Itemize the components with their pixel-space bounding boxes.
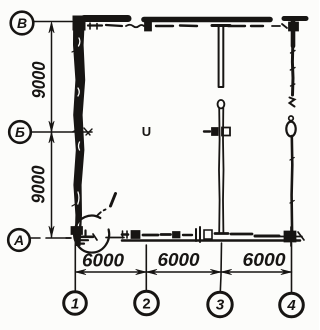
top wall: gap squiggle <box>126 25 144 28</box>
svg-text:3: 3 <box>216 297 225 314</box>
detail mark numeral 1 <box>111 194 116 207</box>
top-right corner blob <box>289 22 299 31</box>
axis 3 stub round top <box>218 100 225 108</box>
top-right corner bar <box>284 16 306 21</box>
axis line A through detail circle to wall <box>106 237 124 239</box>
svg-text:2: 2 <box>142 296 150 313</box>
extension line axis 2 <box>145 245 147 291</box>
axis 4 squiggle break <box>290 98 295 107</box>
axis 4 oval symbol at level Б <box>286 116 295 136</box>
axis bubble 4 <box>280 293 304 317</box>
axis 3 partition upper segment (double line) <box>219 25 224 87</box>
bottom wall: continuous bottom line <box>122 239 300 242</box>
top wall: dash+tick right of bar <box>272 24 287 28</box>
top wall: left panel underside dashes <box>88 25 122 26</box>
detail leader dashes <box>97 210 106 217</box>
axis 4 right wall lower line <box>290 136 293 233</box>
dim arrow bottom (down) <box>49 226 54 237</box>
bottom dim arrows <box>75 269 86 274</box>
column symbol on axis 3 at level Б <box>204 128 230 136</box>
extension line axis 4 <box>291 243 293 293</box>
bottom wall: panel marks row <box>122 227 279 242</box>
left wall (axis 1) hatched band <box>72 16 85 246</box>
axis bubble 1 <box>64 292 87 315</box>
bottom wall: corner cross ticks <box>66 237 71 239</box>
axis bubble 3 <box>208 292 232 316</box>
tick at wall on axis Б <box>84 128 92 135</box>
bottom wall: right corner column <box>279 227 304 246</box>
svg-text:9000: 9000 <box>28 61 49 99</box>
svg-text:Б: Б <box>15 124 25 140</box>
axis 4 right wall upper line <box>291 21 296 46</box>
extension line axis 3 <box>220 243 221 292</box>
axis bubble 2 <box>135 291 159 315</box>
svg-text:4: 4 <box>286 297 296 314</box>
svg-text:А: А <box>13 232 24 248</box>
extension line axis 1 <box>74 246 76 291</box>
axis line В <box>34 21 72 23</box>
axis bubble А (bottom-left) <box>8 229 30 251</box>
svg-text:6000: 6000 <box>158 249 201 270</box>
svg-text:U: U <box>142 124 151 139</box>
top wall: main right bar <box>144 17 270 23</box>
top wall: left panel bar <box>84 15 128 22</box>
top wall: corner blob <box>73 16 85 30</box>
svg-text:В: В <box>17 15 27 31</box>
vertical dimension line <box>51 24 53 237</box>
axis bubble Б (middle-left) <box>9 121 31 143</box>
top wall: tee junction at axis 3 <box>212 24 230 27</box>
axis line А (dashed) <box>31 237 70 239</box>
bottom wall: left corner column blob <box>71 227 83 235</box>
svg-text:9000: 9000 <box>28 165 49 204</box>
bottom dimension line <box>75 271 291 273</box>
axis line Б <box>31 131 92 133</box>
dim arrows at Б <box>49 121 54 132</box>
top wall: underside dashes of main bar <box>156 24 263 27</box>
svg-text:6000: 6000 <box>82 250 125 271</box>
top wall: column at x148 <box>145 22 152 31</box>
svg-text:6000: 6000 <box>243 249 287 270</box>
dim arrow top (up) <box>49 22 54 33</box>
axis bubble В (top-left) <box>11 12 34 35</box>
svg-text:1: 1 <box>71 296 79 313</box>
axis 3 partition lower segment (double wavy line) <box>219 108 224 233</box>
detail circle <box>74 216 109 253</box>
